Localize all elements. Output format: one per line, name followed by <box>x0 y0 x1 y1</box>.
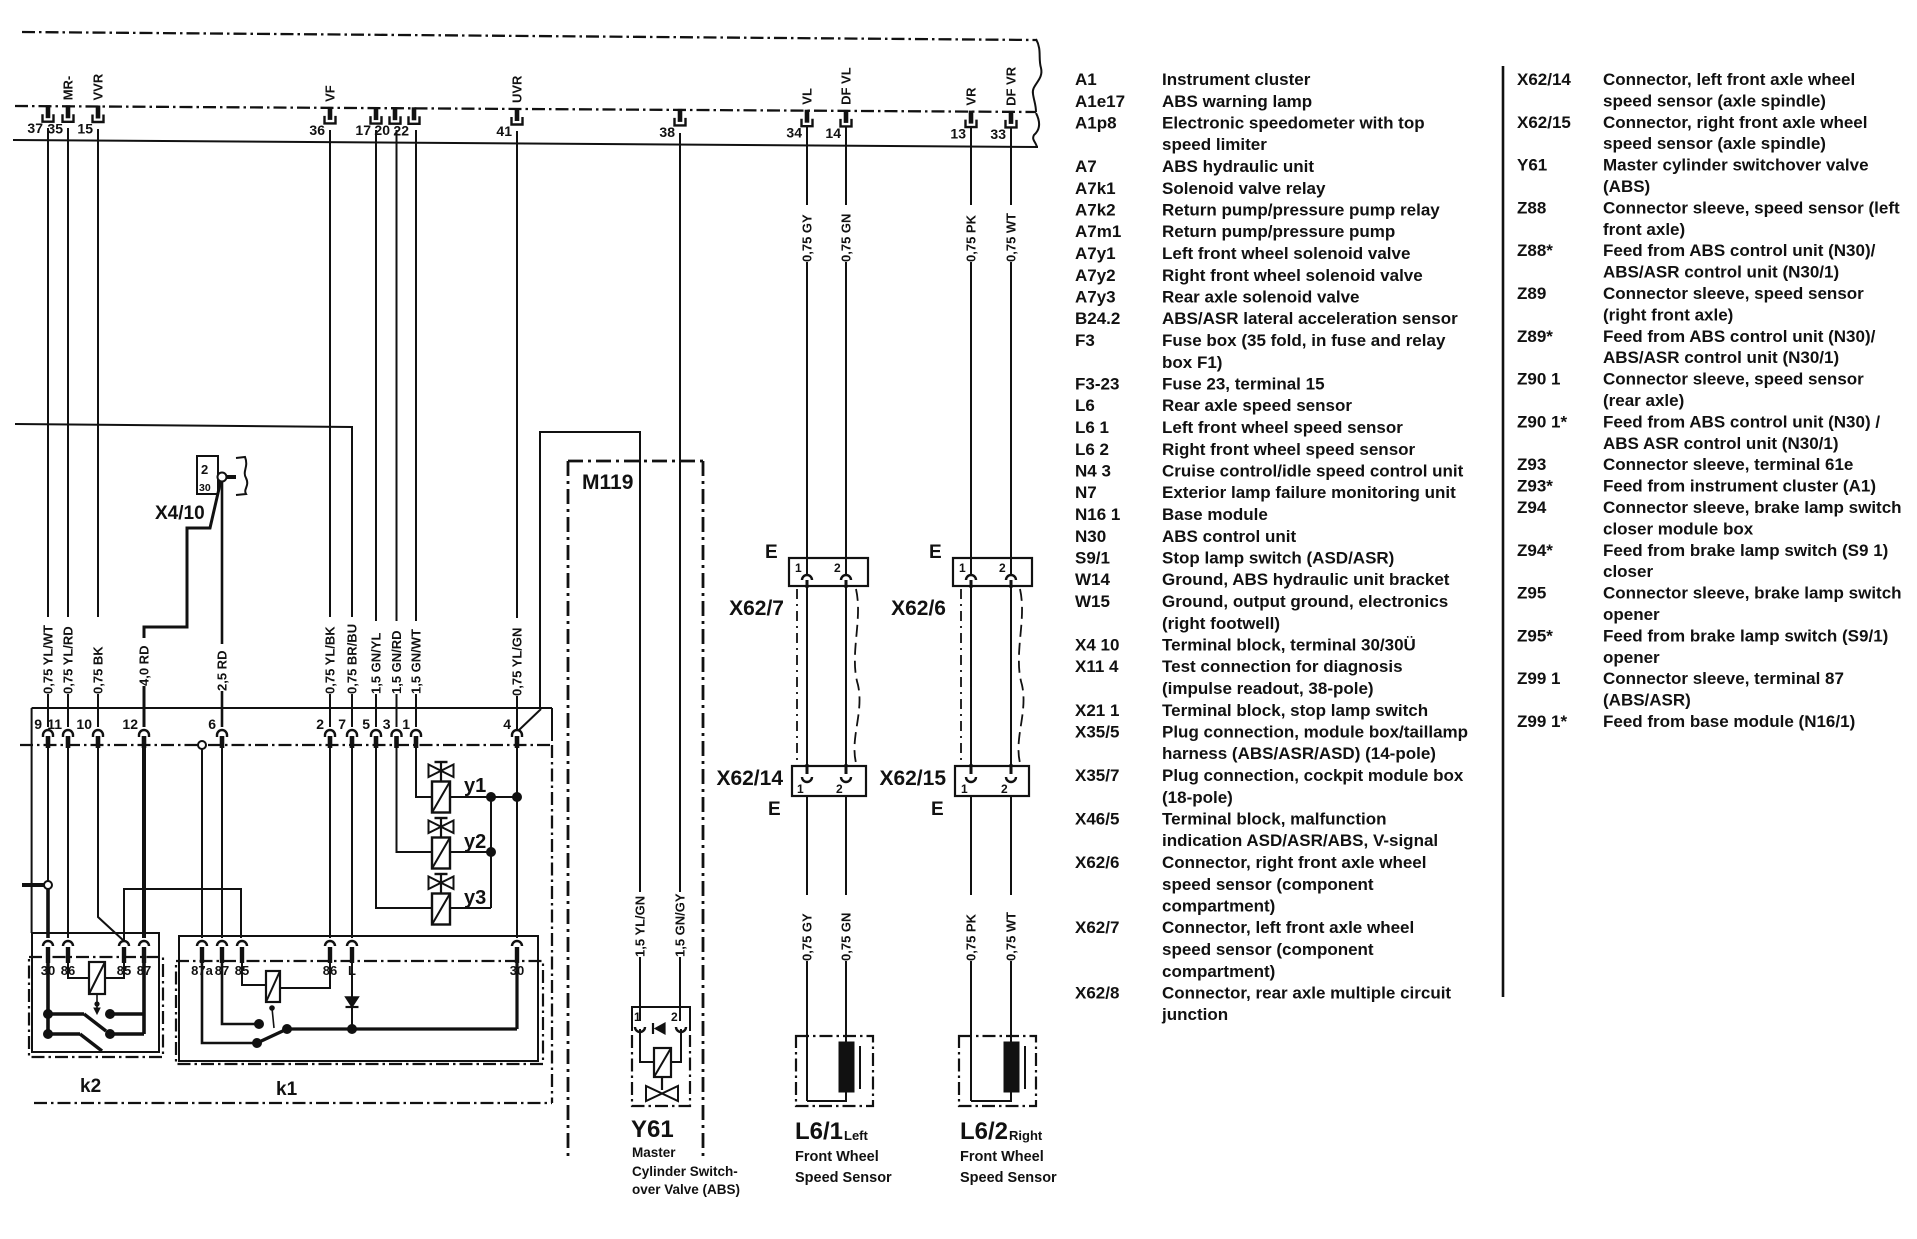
svg-text:A1p8: A1p8 <box>1075 114 1117 133</box>
svg-text:5: 5 <box>362 716 370 732</box>
sensor wire between connectors <box>1010 586 1012 772</box>
svg-text:L6 2: L6 2 <box>1075 440 1109 459</box>
svg-text:Feed from ABS control unit (N3: Feed from ABS control unit (N30)/ <box>1603 241 1876 260</box>
svg-text:A7y2: A7y2 <box>1075 266 1116 285</box>
svg-text:W15: W15 <box>1075 592 1110 611</box>
wire pin11 to k2 pin86 <box>67 748 69 938</box>
svg-text:Z89*: Z89* <box>1517 327 1553 346</box>
svg-text:0,75 YL/RD: 0,75 YL/RD <box>61 626 76 694</box>
sensor wire 0,75 GN upper <box>845 127 847 205</box>
svg-text:Left front wheel speed sensor: Left front wheel speed sensor <box>1162 418 1403 437</box>
svg-text:N16 1: N16 1 <box>1075 505 1120 524</box>
svg-text:Rear axle speed sensor: Rear axle speed sensor <box>1162 396 1352 415</box>
A7 box left edge <box>31 708 33 933</box>
svg-text:MR-: MR- <box>61 76 76 101</box>
wire pin10 to k2 pin85 (with diagonal) <box>98 748 124 941</box>
svg-text:Feed from ABS control unit (N3: Feed from ABS control unit (N30)/ <box>1603 327 1876 346</box>
svg-text:(right front axle): (right front axle) <box>1603 305 1733 324</box>
svg-text:E: E <box>765 542 778 563</box>
torn edge right side of A1 box <box>1033 39 1042 112</box>
pin 17 connector symbol <box>374 107 379 120</box>
svg-text:L6 1: L6 1 <box>1075 418 1109 437</box>
svg-text:Feed from brake lamp switch (S: Feed from brake lamp switch (S9 1) <box>1603 541 1888 560</box>
Y61 coil <box>654 1048 671 1077</box>
wire 0,75 YL/BK pin36 to pin2 <box>329 130 331 617</box>
ground stub left <box>22 883 44 887</box>
svg-text:2: 2 <box>316 716 324 732</box>
svg-text:ABS/ASR lateral acceleration s: ABS/ASR lateral acceleration sensor <box>1162 309 1458 328</box>
sensor wire between connectors <box>845 586 847 772</box>
svg-text:A1: A1 <box>1075 70 1097 89</box>
svg-text:0,75 YL/GN: 0,75 YL/GN <box>510 628 525 696</box>
L6/2 internal wire <box>971 1092 1011 1101</box>
svg-text:0,75 BR/BU: 0,75 BR/BU <box>345 624 360 694</box>
svg-text:2: 2 <box>834 561 841 575</box>
A7 pin 4 symbol <box>512 730 522 737</box>
svg-text:X11 4: X11 4 <box>1075 657 1119 676</box>
svg-text:Feed from ABS control unit (N3: Feed from ABS control unit (N30) / <box>1603 412 1880 431</box>
svg-text:0,75 PK: 0,75 PK <box>964 913 979 961</box>
pin 15 connector symbol <box>96 106 101 119</box>
svg-text:y2: y2 <box>464 831 486 853</box>
k1 pin 30 <box>512 941 522 946</box>
wire pin7 to k1 pinL <box>351 748 353 938</box>
instrument cluster A1 boundary upper dash-dot line <box>22 32 1036 40</box>
svg-text:41: 41 <box>496 123 512 139</box>
svg-text:33: 33 <box>990 126 1006 142</box>
A7 pin 1 symbol <box>411 730 421 737</box>
harness dash-dot boundary top <box>20 744 552 746</box>
pin 13 connector symbol <box>969 111 974 124</box>
svg-text:opener: opener <box>1603 605 1660 624</box>
svg-text:Z90 1: Z90 1 <box>1517 370 1560 389</box>
svg-text:Feed from base module (N16/1): Feed from base module (N16/1) <box>1603 712 1855 731</box>
wavy harness line right of X62/7 wires <box>854 589 859 763</box>
svg-text:1: 1 <box>961 782 968 796</box>
torn edge right side below second line <box>1033 113 1039 148</box>
svg-text:Connector sleeve, speed sensor: Connector sleeve, speed sensor <box>1603 370 1864 389</box>
X62/15 pin2 <box>1006 777 1016 782</box>
A7 pin 9 symbol <box>43 730 53 737</box>
junction y2 on rail <box>486 847 496 857</box>
svg-text:0,75 YL/BK: 0,75 YL/BK <box>323 626 338 694</box>
svg-text:11: 11 <box>47 716 62 732</box>
svg-text:X35/7: X35/7 <box>1075 766 1119 785</box>
pin 33 connector symbol <box>1009 111 1014 124</box>
wire 0,75 BK pin15 to pin10 <box>97 129 99 617</box>
svg-text:F3: F3 <box>1075 331 1095 350</box>
svg-text:1,5 GN/GY: 1,5 GN/GY <box>673 893 688 957</box>
k1 pin L <box>347 941 357 946</box>
solenoid valve y1 <box>435 761 448 763</box>
svg-text:Z94: Z94 <box>1517 498 1547 517</box>
svg-text:Connector sleeve, brake lamp s: Connector sleeve, brake lamp switch <box>1603 584 1902 603</box>
svg-text:VVR: VVR <box>91 73 106 100</box>
svg-text:N4 3: N4 3 <box>1075 462 1111 481</box>
wire 1,5 GN/WT pin22 to pin1 <box>415 130 417 621</box>
sensor wire 0,75 PK lower <box>970 796 972 895</box>
svg-text:Z99 1: Z99 1 <box>1517 669 1560 688</box>
svg-text:15: 15 <box>77 121 93 137</box>
svg-text:y3: y3 <box>464 887 486 909</box>
node circle on wire 9 <box>44 881 52 889</box>
valve output rail <box>450 796 517 798</box>
connector X62/15 box <box>955 766 1029 796</box>
svg-text:Master cylinder switchover val: Master cylinder switchover valve <box>1603 156 1869 175</box>
svg-text:1: 1 <box>795 561 802 575</box>
wire 4,0 RD from X4/10 to pin12 <box>144 480 221 638</box>
wire pin5 down to valve y3 row <box>376 748 432 908</box>
svg-text:X62/14: X62/14 <box>716 767 783 790</box>
svg-text:6: 6 <box>208 716 216 732</box>
svg-text:W14: W14 <box>1075 570 1111 589</box>
Y61 pin1 arc <box>635 1027 645 1032</box>
wire 1,5 GN/RD pin20 to pin3 <box>396 130 398 621</box>
svg-text:1,5 GN/RD: 1,5 GN/RD <box>389 630 404 694</box>
svg-text:Fuse box (35 fold, in fuse and: Fuse box (35 fold, in fuse and relay <box>1162 331 1446 350</box>
svg-text:10: 10 <box>76 716 92 732</box>
k2 pin 86 <box>63 941 73 946</box>
svg-text:X62/6: X62/6 <box>891 597 946 620</box>
svg-text:compartment): compartment) <box>1162 962 1275 981</box>
k1 pin 85 <box>237 941 247 946</box>
svg-text:box F1): box F1) <box>1162 353 1222 372</box>
svg-text:Exterior lamp failure monitori: Exterior lamp failure monitoring unit <box>1162 483 1456 502</box>
solenoid valve y3 <box>435 873 448 875</box>
junction pin4 wire / valve rail <box>512 792 522 802</box>
svg-text:2: 2 <box>836 782 843 796</box>
svg-text:2: 2 <box>1001 782 1008 796</box>
Y61 check valve arrow <box>655 1023 665 1034</box>
svg-text:Connector, right front axle wh: Connector, right front axle wheel <box>1162 853 1426 872</box>
sensor wire between connectors <box>970 586 972 772</box>
svg-text:opener: opener <box>1603 648 1660 667</box>
k1 pin 87 <box>217 941 227 946</box>
svg-text:34: 34 <box>786 125 802 141</box>
svg-text:Z95: Z95 <box>1517 584 1546 603</box>
k1 common bar to pin30 <box>287 1027 517 1030</box>
harness dash-dot boundary right <box>551 745 553 1103</box>
svg-text:0,75 YL/WT: 0,75 YL/WT <box>41 625 56 694</box>
Y61 feed wire: up, across, down to M119 <box>540 432 640 892</box>
legend divider line <box>1502 66 1505 997</box>
wire 1,5 GN/YL pin17 to pin5 <box>375 130 377 621</box>
svg-text:L6/2: L6/2 <box>960 1118 1008 1145</box>
k1 armature link <box>269 1005 275 1011</box>
A7 pin 7 symbol <box>347 730 357 737</box>
k1 pin 87a <box>197 941 207 946</box>
svg-text:Z99 1*: Z99 1* <box>1517 712 1567 731</box>
svg-text:DF VL: DF VL <box>839 67 854 105</box>
speed sensor L6/2 dash-dot box <box>959 1036 1036 1106</box>
svg-text:harness (ABS/ASR/ASD) (14-pole: harness (ABS/ASR/ASD) (14-pole) <box>1162 744 1436 763</box>
svg-text:ABS warning lamp: ABS warning lamp <box>1162 92 1312 111</box>
svg-text:E: E <box>768 799 781 820</box>
svg-text:N30: N30 <box>1075 527 1106 546</box>
harness dash-dot between X62/6 and X62/15 <box>960 589 962 764</box>
svg-text:Connector, left front axle whe: Connector, left front axle wheel <box>1603 70 1855 89</box>
svg-text:A7y1: A7y1 <box>1075 244 1116 263</box>
L6/1 internal wire <box>807 1092 846 1101</box>
svg-text:1,5 GN/YL: 1,5 GN/YL <box>369 633 384 694</box>
svg-text:0,75 GN: 0,75 GN <box>839 913 854 961</box>
svg-text:Right: Right <box>1009 1128 1043 1143</box>
solenoid valve y2 <box>435 817 448 819</box>
svg-text:(ABS/ASR): (ABS/ASR) <box>1603 691 1691 710</box>
pin 22 connector symbol <box>412 107 417 120</box>
svg-text:Z88: Z88 <box>1517 198 1546 217</box>
svg-text:A7y3: A7y3 <box>1075 288 1116 307</box>
svg-text:37: 37 <box>27 120 43 136</box>
svg-text:3: 3 <box>383 716 391 732</box>
svg-text:1,5 YL/GN: 1,5 YL/GN <box>633 896 648 957</box>
svg-text:Connector sleeve, terminal 87: Connector sleeve, terminal 87 <box>1603 669 1844 688</box>
k2 coil <box>89 962 105 994</box>
svg-text:Return pump/pressure pump: Return pump/pressure pump <box>1162 222 1395 241</box>
svg-text:S9/1: S9/1 <box>1075 549 1110 568</box>
svg-text:9: 9 <box>34 716 42 732</box>
svg-text:Terminal block, malfunction: Terminal block, malfunction <box>1162 810 1387 829</box>
svg-text:14: 14 <box>825 125 841 141</box>
svg-text:Base module: Base module <box>1162 505 1268 524</box>
Y61 internal wires <box>640 1029 654 1062</box>
svg-text:X62/7: X62/7 <box>1075 918 1119 937</box>
svg-text:Ground, ABS hydraulic unit bra: Ground, ABS hydraulic unit bracket <box>1162 570 1450 589</box>
X4/10 node circle <box>218 473 227 482</box>
svg-text:E: E <box>931 799 944 820</box>
k2 coil wiring <box>68 963 89 978</box>
svg-text:0,75 GN: 0,75 GN <box>839 214 854 262</box>
svg-text:over Valve (ABS): over Valve (ABS) <box>632 1182 740 1197</box>
svg-text:ABS ASR control unit (N30/1): ABS ASR control unit (N30/1) <box>1603 434 1839 453</box>
svg-text:Z89: Z89 <box>1517 284 1546 303</box>
svg-text:7: 7 <box>338 716 346 732</box>
svg-text:Terminal block, terminal 30/30: Terminal block, terminal 30/30Ü <box>1162 636 1416 655</box>
wire 0,75 YL/WT pin37 to pin9 <box>47 128 49 617</box>
svg-text:Z93: Z93 <box>1517 455 1546 474</box>
svg-text:compartment): compartment) <box>1162 897 1275 916</box>
svg-text:X35/5: X35/5 <box>1075 723 1119 742</box>
k2 switch blade 1 <box>84 1014 106 1031</box>
svg-text:L6/1: L6/1 <box>795 1118 843 1145</box>
svg-text:Z90 1*: Z90 1* <box>1517 412 1567 431</box>
svg-text:Z93*: Z93* <box>1517 477 1553 496</box>
svg-text:Left: Left <box>844 1128 869 1143</box>
relay k2 outer solid box <box>32 933 159 1052</box>
pin 36 connector symbol <box>328 107 333 120</box>
svg-text:indication ASD/ASR/ABS, V-sign: indication ASD/ASR/ABS, V-signal <box>1162 831 1438 850</box>
svg-text:VL: VL <box>800 88 815 105</box>
svg-text:closer: closer <box>1603 562 1653 581</box>
wire pin38 down (upper part) <box>679 133 681 892</box>
svg-text:ABS/ASR control unit (N30/1): ABS/ASR control unit (N30/1) <box>1603 348 1839 367</box>
k1 diode <box>351 963 353 997</box>
svg-text:speed sensor (axle spindle): speed sensor (axle spindle) <box>1603 91 1826 110</box>
sensor wire between connectors <box>806 586 808 772</box>
svg-text:Right front wheel speed sensor: Right front wheel speed sensor <box>1162 440 1416 459</box>
svg-text:Connector sleeve, terminal 61e: Connector sleeve, terminal 61e <box>1603 455 1853 474</box>
wire boundary node to k1 pin87a <box>201 749 203 938</box>
svg-text:Feed from instrument cluster (: Feed from instrument cluster (A1) <box>1603 477 1876 496</box>
A7 pin 2 symbol <box>325 730 335 737</box>
k1 switch blade <box>257 1029 287 1043</box>
wire pin4 down to k1 pin30 <box>516 748 518 938</box>
relay k2 dash-dot box <box>29 957 163 1057</box>
svg-text:A7m1: A7m1 <box>1075 222 1121 241</box>
harness dash-dot between X62/7 and X62/14 <box>796 589 798 764</box>
svg-text:Z88*: Z88* <box>1517 241 1553 260</box>
k2 pin 30 <box>43 941 53 946</box>
svg-text:Z95*: Z95* <box>1517 626 1553 645</box>
svg-text:0,75 GY: 0,75 GY <box>800 214 815 262</box>
svg-text:4,0 RD: 4,0 RD <box>137 646 152 686</box>
relay k1 dash-dot box <box>176 961 543 1064</box>
wire 2,5 RD from X4/10 circle to pin6 <box>221 481 224 644</box>
svg-text:Y61: Y61 <box>631 1116 674 1143</box>
pin 14 connector symbol <box>844 110 849 123</box>
X62/14 pin2 <box>841 777 851 782</box>
svg-text:Speed Sensor: Speed Sensor <box>795 1170 892 1186</box>
k1 coil <box>266 971 280 1002</box>
svg-text:X62/14: X62/14 <box>1517 70 1571 89</box>
X62/14 pin1 <box>802 777 812 782</box>
k2 contact row 1 <box>46 1012 84 1016</box>
M119 box left edge <box>567 461 570 1157</box>
A7 pin 3 symbol <box>392 730 402 737</box>
svg-text:0,75 PK: 0,75 PK <box>964 214 979 262</box>
connector X62/14 box <box>792 766 866 796</box>
svg-text:Return pump/pressure pump rela: Return pump/pressure pump relay <box>1162 201 1440 220</box>
svg-text:M119: M119 <box>582 471 633 494</box>
svg-text:12: 12 <box>122 716 138 732</box>
X4/10 torn flag <box>236 457 247 495</box>
Y61 connector solid box <box>632 1007 690 1031</box>
k2 contact row 2 <box>46 1032 80 1036</box>
instrument cluster A1 boundary lower dash-dot line <box>15 106 1036 112</box>
svg-text:2: 2 <box>201 462 208 477</box>
svg-text:ABS/ASR control unit (N30/1): ABS/ASR control unit (N30/1) <box>1603 263 1839 282</box>
svg-text:Front Wheel: Front Wheel <box>960 1149 1044 1165</box>
wire pin1 down to valve y1 row <box>416 748 432 797</box>
svg-text:1: 1 <box>959 561 966 575</box>
svg-text:Plug connection, cockpit modul: Plug connection, cockpit module box <box>1162 766 1464 785</box>
X4/10 thick stub <box>227 475 236 479</box>
k2 armature link <box>96 994 98 1012</box>
svg-text:Right front wheel solenoid val: Right front wheel solenoid valve <box>1162 266 1423 285</box>
k1 pin87a to blade pivot <box>202 963 254 1043</box>
A7 hydraulic unit box top edge <box>32 707 552 709</box>
svg-text:Stop lamp switch (ASD/ASR): Stop lamp switch (ASD/ASR) <box>1162 549 1394 568</box>
A7 pin 10 symbol <box>93 730 103 737</box>
A7 pin 5 symbol <box>371 730 381 737</box>
pin 20 connector symbol <box>393 107 398 120</box>
svg-text:X4 10: X4 10 <box>1075 636 1119 655</box>
svg-text:speed limiter: speed limiter <box>1162 135 1267 154</box>
svg-text:Connector sleeve, speed sensor: Connector sleeve, speed sensor <box>1603 284 1864 303</box>
wire pin9 to k2 pin30 <box>47 748 49 884</box>
svg-text:VR: VR <box>964 87 979 106</box>
svg-text:2,5 RD: 2,5 RD <box>215 651 230 691</box>
svg-text:35: 35 <box>47 120 63 136</box>
svg-text:Connector sleeve, speed sensor: Connector sleeve, speed sensor (left <box>1603 198 1900 217</box>
svg-text:(rear axle): (rear axle) <box>1603 391 1684 410</box>
svg-text:17: 17 <box>355 122 371 138</box>
sensor wire 0,75 PK upper <box>970 127 972 205</box>
svg-text:Connector, left front axle whe: Connector, left front axle wheel <box>1162 918 1414 937</box>
connector X62/6 box <box>953 558 1032 586</box>
svg-text:L6: L6 <box>1075 396 1095 415</box>
wire pin3 down to valve y2 row <box>397 748 433 852</box>
wire to pin7 from left edge <box>15 424 352 617</box>
svg-text:Z94*: Z94* <box>1517 541 1553 560</box>
wavy harness line right of X62/6 wires <box>1018 589 1023 763</box>
pin 41 connector symbol <box>515 108 520 121</box>
svg-text:2: 2 <box>671 1010 678 1024</box>
node circle on boundary (k1 87a feed) <box>198 741 206 749</box>
connector X62/7 box <box>789 558 868 586</box>
A7 box right edge (short) <box>551 708 553 741</box>
sensor wire 0,75 GY upper <box>806 127 808 205</box>
svg-text:0,75 GY: 0,75 GY <box>800 913 815 961</box>
svg-text:front axle): front axle) <box>1603 220 1685 239</box>
pin 37 connector symbol <box>46 105 51 118</box>
wire pin2 to k1 pin86 <box>329 748 331 938</box>
svg-text:DF VR: DF VR <box>1004 66 1019 106</box>
svg-text:0,75 BK: 0,75 BK <box>91 646 106 694</box>
svg-text:speed sensor (component: speed sensor (component <box>1162 940 1374 959</box>
svg-text:k2: k2 <box>80 1076 101 1097</box>
relay k1 outer solid box <box>179 936 538 1061</box>
svg-text:y1: y1 <box>464 775 486 797</box>
svg-text:(ABS): (ABS) <box>1603 177 1650 196</box>
k2 right contacts to 87 <box>105 1009 115 1019</box>
X62/15 pin1 <box>966 777 976 782</box>
svg-text:Electronic speedometer with to: Electronic speedometer with top <box>1162 114 1425 133</box>
k1 coil wiring <box>242 963 266 985</box>
svg-text:Terminal block, stop lamp swit: Terminal block, stop lamp switch <box>1162 701 1428 720</box>
sensor wire 0,75 WT upper <box>1010 127 1012 205</box>
svg-text:X62/7: X62/7 <box>729 597 784 620</box>
svg-text:0,75 WT: 0,75 WT <box>1004 213 1019 262</box>
sensor wire 0,75 WT lower <box>1010 796 1012 895</box>
wire 0,75 YL/GN pin41 to pin4 <box>516 131 518 618</box>
svg-text:Front Wheel: Front Wheel <box>795 1149 879 1165</box>
svg-text:Plug connection, module box/ta: Plug connection, module box/taillamp <box>1162 723 1468 742</box>
Y61 dash-dot box <box>632 1035 690 1106</box>
svg-text:VF: VF <box>323 85 338 102</box>
terminal block X4/10 <box>197 456 218 494</box>
sensor wire 0,75 GY lower <box>806 796 808 895</box>
svg-text:N7: N7 <box>1075 483 1097 502</box>
harness dash-dot boundary bottom <box>34 1102 552 1104</box>
svg-text:1: 1 <box>797 782 804 796</box>
svg-text:junction: junction <box>1161 1005 1228 1024</box>
svg-text:Cruise control/idle speed cont: Cruise control/idle speed control unit <box>1162 462 1464 481</box>
svg-text:Fuse 23, terminal 15: Fuse 23, terminal 15 <box>1162 375 1325 394</box>
svg-text:Connector, right front axle wh: Connector, right front axle wheel <box>1603 113 1867 132</box>
wire 0,75 YL/RD pin35 to pin11 <box>67 128 69 617</box>
L6/2 sensor element (black bar) <box>1004 1042 1019 1092</box>
svg-text:Solenoid valve relay: Solenoid valve relay <box>1162 179 1326 198</box>
A7 pin 11 symbol <box>63 730 73 737</box>
svg-text:E: E <box>929 542 942 563</box>
svg-text:(18-pole): (18-pole) <box>1162 788 1233 807</box>
svg-text:speed sensor (axle spindle): speed sensor (axle spindle) <box>1603 134 1826 153</box>
k1 pin87 fixed contact <box>222 963 256 1024</box>
speed sensor L6/1 dash-dot box <box>796 1036 873 1106</box>
A7 pin 6 symbol <box>217 730 227 737</box>
svg-text:1: 1 <box>402 716 410 732</box>
